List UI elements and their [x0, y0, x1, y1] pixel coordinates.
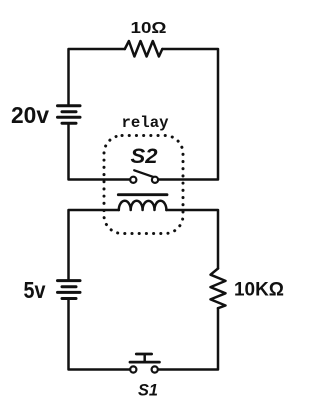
switch S1 right terminal	[152, 366, 158, 372]
switch S2 left terminal	[130, 177, 136, 183]
svg-text:S1: S1	[138, 381, 158, 400]
svg-text:10Ω: 10Ω	[131, 20, 167, 37]
wire B1 bottom to S2 left terminal	[69, 125, 131, 180]
switch S1 left terminal	[130, 366, 136, 372]
wire coil left lead to battery B2 top	[69, 210, 119, 279]
relay core bar	[118, 193, 167, 196]
wire S1 right terminal to resistor R2 bottom	[158, 308, 218, 369]
wire top-right (R1 right lead down to S2 right terminal)	[158, 49, 218, 180]
switch S2 blade	[134, 170, 153, 177]
svg-text:20v: 20v	[11, 102, 49, 128]
resistor R1 10Ω (zigzag)	[125, 41, 163, 57]
relay enclosure (dotted rounded box)	[104, 136, 183, 234]
relay coil L1	[119, 201, 167, 210]
switch S1 pushbutton stem	[143, 354, 146, 362]
resistor R2 10KΩ (vertical zigzag)	[211, 269, 226, 309]
wire top-left (R1 left lead to battery B1 top)	[69, 49, 125, 104]
switch S1 pushbutton actuator bar	[130, 361, 159, 364]
svg-text:10KΩ: 10KΩ	[234, 280, 284, 301]
battery B2 5V	[58, 281, 81, 299]
battery B1 20V	[58, 106, 81, 124]
wire coil right lead to resistor R2 top	[166, 210, 218, 269]
switch S1 pushbutton cap	[136, 353, 151, 356]
svg-text:S2: S2	[131, 145, 158, 168]
switch S2 right terminal	[152, 177, 158, 183]
svg-text:5v: 5v	[24, 277, 46, 303]
svg-text:relay: relay	[122, 114, 169, 132]
wire B2 bottom to S1 left terminal	[69, 300, 131, 370]
